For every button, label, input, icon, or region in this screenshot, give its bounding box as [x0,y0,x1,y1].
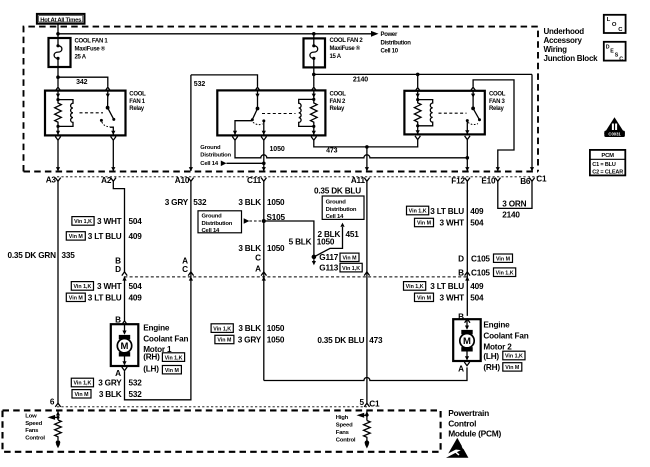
coil in K2 [299,99,314,126]
svg-text:Ground: Ground [202,214,223,220]
svg-text:Junction Block: Junction Block [544,54,599,63]
svg-text:Speed: Speed [336,423,353,429]
pin letters A C at C105 [182,257,194,281]
svg-text:C2 = CLEAR: C2 = CLEAR [592,169,623,175]
label fuse F2 [330,38,364,60]
label Vin M 3 LT BLU 409 row [66,232,142,241]
svg-text:342: 342 [76,79,88,86]
svg-text:Accessory: Accessory [544,36,583,45]
svg-text:473: 473 [369,336,383,345]
pin letters C A at C105 [255,254,261,274]
svg-text:A11: A11 [351,176,366,185]
svg-text:PCM: PCM [601,153,614,159]
label Vin 1,K 3 BLK 1050 row [211,324,285,333]
svg-text:D: D [606,44,610,50]
svg-text:Vin M: Vin M [417,221,432,227]
svg-text:Control: Control [448,418,476,428]
svg-text:Vin 1,K: Vin 1,K [74,219,92,225]
label Vin 1,K 3 GRY 532 row [71,378,142,387]
svg-text:Vin M: Vin M [74,392,89,398]
svg-text:5 BLK: 5 BLK [289,238,312,247]
label 3 BLK 1050 lower [238,244,285,253]
svg-text:High: High [336,415,349,421]
label fuse F1 [75,39,109,61]
svg-text:6: 6 [50,398,55,407]
fuse F2 COOL FAN 2 MaxiFuse 15 A [304,34,326,75]
svg-text:3 BLK: 3 BLK [238,324,261,333]
Underhood Accessory Wiring Junction Block dashed border [24,27,540,177]
svg-text:1050: 1050 [317,238,335,247]
label 0.35 DK GRN 335 [7,251,75,260]
wire hot feed vertical into fuse 1 [57,24,59,46]
wire E10 to B6 loop [498,181,532,208]
wire F12 to motor2 B [465,181,470,322]
svg-text:532: 532 [194,81,206,88]
svg-text:G113: G113 [319,264,338,273]
svg-text:A3: A3 [46,175,57,184]
svg-text:Control: Control [25,436,45,442]
svg-text:D: D [458,254,464,263]
svg-text:Distribution: Distribution [200,152,231,158]
svg-text:D: D [115,265,121,274]
svg-text:FAN 1: FAN 1 [129,99,145,105]
svg-text:A10: A10 [175,176,190,185]
wire power distribution feed horizontal [58,33,372,35]
svg-text:S: S [615,53,619,59]
svg-text:C1 = BLU: C1 = BLU [592,162,616,168]
svg-text:C: C [619,57,623,63]
svg-text:Vin 1,K: Vin 1,K [406,284,424,290]
svg-text:Ground: Ground [200,145,221,151]
svg-text:Vin M: Vin M [505,365,520,371]
resistor in K2 [311,99,318,126]
svg-text:1050: 1050 [267,335,285,344]
svg-text:Vin 1,K: Vin 1,K [73,381,91,387]
relay K3 COOL FAN 3 box [404,91,484,135]
svg-text:3 BLK: 3 BLK [99,390,122,399]
svg-text:335: 335 [62,251,76,260]
wire relay2 switch to F12 with hops [235,140,469,171]
svg-text:473: 473 [326,148,338,155]
svg-text:A: A [255,265,261,274]
svg-text:FAN 3: FAN 3 [489,99,505,105]
svg-text:532: 532 [193,198,207,207]
label Vin M 3 GRY 1050 row [215,335,285,344]
wire arrow ground distribution to S105 [244,218,262,224]
svg-text:3 WHT: 3 WHT [97,282,122,291]
svg-text:1050: 1050 [267,198,285,207]
svg-text:C: C [255,254,261,263]
svg-text:C: C [182,265,188,274]
svg-text:3 LT BLU: 3 LT BLU [88,293,122,302]
svg-text:Vin 1,K: Vin 1,K [409,209,427,215]
svg-text:2 BLK: 2 BLK [318,230,341,239]
svg-text:Vin 1,K: Vin 1,K [213,326,231,332]
svg-text:Distribution: Distribution [202,221,233,227]
svg-text:Vin 1,K: Vin 1,K [505,354,523,360]
label COOL FAN 2 Relay [330,92,347,113]
svg-text:Fans: Fans [25,428,39,434]
relay K1 coil-switch dashed link [80,112,104,114]
svg-text:532: 532 [129,379,143,388]
relay K2 COOL FAN 2 box [217,90,325,135]
label Powertrain Control Module (PCM) [448,408,501,439]
svg-text:Relay: Relay [129,106,144,112]
svg-text:Relay: Relay [330,106,345,112]
svg-text:C105: C105 [471,268,490,277]
svg-text:Vin M: Vin M [165,368,180,374]
svg-text:1050: 1050 [270,146,285,153]
svg-text:Coolant Fan: Coolant Fan [143,334,188,343]
svg-text:451: 451 [346,230,360,239]
label Ground Distribution Cell 14 upper [200,145,231,167]
fuse F1 COOL FAN 1 MaxiFuse 25 A [49,38,71,77]
svg-text:B: B [458,268,464,277]
label 3 GRY 532 at A10 [165,198,207,207]
motor M2 Engine Coolant Fan Motor 2 [453,319,481,366]
svg-text:25 A: 25 A [75,55,87,61]
DESC box [604,42,626,63]
wire C11 down to ground rail [261,181,266,380]
svg-text:C1: C1 [369,400,380,409]
svg-text:504: 504 [470,219,484,228]
label Vin M 3 LT BLU 409 row below C105 [66,293,142,302]
Ground Distribution Cell 14 box right [322,196,364,220]
svg-text:409: 409 [129,232,143,241]
label Power Distribution Cell 10 [381,32,412,54]
svg-text:(LH): (LH) [483,352,499,361]
relay K2 switch branch [232,92,266,141]
svg-text:Power: Power [381,32,398,38]
svg-text:3 BLK: 3 BLK [238,198,261,207]
svg-text:3 LT BLU: 3 LT BLU [430,282,464,291]
label Engine Coolant Fan Motor 1 [143,323,188,374]
wire net E10 loop to relay3 switch [470,80,514,171]
svg-text:Distribution: Distribution [326,207,357,213]
svg-text:3 GRY: 3 GRY [98,379,122,388]
label Vin 1,K 3 WHT 504 row [72,217,142,227]
svg-text:COOL: COOL [489,92,506,98]
label Vin M 3 WHT 504 row F12 [415,218,485,227]
svg-text:Engine: Engine [483,321,510,330]
wire G117 branch 2 BLK 451 up arrow [314,223,345,257]
svg-text:409: 409 [129,293,143,302]
coil in K3 [418,100,433,126]
svg-text:504: 504 [129,217,143,226]
svg-text:Module (PCM): Module (PCM) [448,429,501,439]
in-line connector C105 dashed line [124,276,467,278]
relay K3 switch branch [465,92,481,140]
svg-text:Powertrain: Powertrain [448,408,489,418]
svg-text:(LH): (LH) [143,365,159,374]
svg-text:Cell 14: Cell 14 [202,228,221,234]
svg-text:Control: Control [336,437,356,443]
relay K3 coil branch [414,92,432,140]
svg-text:3 LT BLU: 3 LT BLU [88,232,122,241]
svg-text:Vin 1,K: Vin 1,K [165,355,183,361]
label 0.35 DK BLU 473 [317,336,383,345]
svg-text:Coolant Fan: Coolant Fan [483,332,528,341]
svg-text:0.35 DK GRN: 0.35 DK GRN [7,251,56,260]
svg-text:0.35 DK BLU: 0.35 DK BLU [314,187,361,196]
svg-text:Cell 14: Cell 14 [326,214,345,220]
svg-text:A2: A2 [101,176,112,185]
svg-text:COOL FAN 1: COOL FAN 1 [75,39,109,45]
svg-text:Low: Low [25,413,37,419]
node Hot At All Times label [37,14,85,24]
svg-text:3 WHT: 3 WHT [97,217,122,226]
svg-text:3 GRY: 3 GRY [165,198,189,207]
wire relay2 ground exit to C11 [262,140,266,171]
svg-text:2140: 2140 [502,211,520,220]
wire ground rail to motor2 A with hop over A11 [264,367,467,380]
svg-text:Cell 14: Cell 14 [200,161,219,167]
svg-text:1050: 1050 [267,324,285,333]
wire S105 to G117 [264,221,314,255]
label Low Speed Fans Control [25,413,45,441]
wire motor1 A loop to A10 [125,181,191,399]
svg-text:5: 5 [359,398,364,407]
label Vin 1,K 3 LT BLU 409 row F12 [407,206,485,216]
label Engine Coolant Fan Motor 2 [483,321,528,372]
svg-text:Vin 1,K: Vin 1,K [496,270,514,276]
svg-text:M: M [121,341,129,352]
svg-text:15 A: 15 A [330,54,342,60]
node junction dot hot feed [56,32,60,36]
label Vin 1,K 3 LT BLU 409 row motor2 [404,282,485,291]
svg-text:E10: E10 [481,176,496,185]
svg-text:Motor 2: Motor 2 [483,343,512,352]
pin D C105 Vin M [458,254,512,263]
label Vin M 3 BLK 532 row [72,390,142,399]
warning triangle code symbol [604,117,625,137]
pin B C105 Vin 1,K [458,268,516,277]
svg-text:504: 504 [129,282,143,291]
svg-text:3 ORN: 3 ORN [502,200,526,209]
motor M1 Engine Coolant Fan Motor 1 [111,324,139,371]
svg-text:2140: 2140 [353,76,368,83]
svg-text:532: 532 [129,390,143,399]
wire net 342 fuse1 to relay1 [55,75,110,91]
label Vin M 3 WHT 504 row motor2 [415,293,485,302]
label 3 BLK 1050 upper [238,198,285,207]
label COOL FAN 3 Relay [489,92,506,113]
svg-text:E: E [610,48,614,54]
svg-text:C105: C105 [471,254,490,263]
LOC box [604,15,626,33]
svg-text:3 GRY: 3 GRY [238,335,262,344]
wire net 532 A10 to relay2 switch [189,75,260,171]
relay K2 coil-switch dashed link [262,113,296,115]
svg-text:Vin M: Vin M [69,234,84,240]
svg-text:Cell 10: Cell 10 [381,49,399,55]
coil in K1 [58,100,73,127]
PCM high speed fans control driver [357,411,371,448]
svg-text:0.35 DK BLU: 0.35 DK BLU [317,336,364,345]
wire ground distribution arrow to C11 wire [221,161,264,167]
label 3 ORN 2140 [502,200,526,220]
svg-text:3 BLK: 3 BLK [238,244,261,253]
label Vin 1,K 3 WHT 504 row below C105 [71,282,142,291]
pin 5 and C1 [359,398,380,409]
svg-text:Speed: Speed [25,421,42,427]
relay K1 coil branch [55,92,73,172]
svg-text:C0031: C0031 [608,132,621,137]
svg-text:Relay: Relay [489,106,504,112]
relay K2 coil branch [299,92,317,141]
ESD symbol triangle bottom [444,438,471,458]
svg-text:3 LT BLU: 3 LT BLU [430,207,464,216]
svg-text:3 WHT: 3 WHT [440,219,465,228]
pin letters B D at C105 [115,257,121,274]
svg-text:COOL: COOL [330,92,347,98]
svg-text:(RH): (RH) [143,353,160,362]
svg-text:F12: F12 [451,176,465,185]
wire A2 jog to motor1 B [113,181,127,324]
svg-text:A: A [458,365,464,374]
relay K1 switch branch [100,92,116,172]
svg-text:Vin M: Vin M [417,296,432,302]
relay K3 coil-switch dashed link [439,112,467,114]
svg-text:L: L [607,17,611,23]
svg-text:Ground: Ground [326,200,347,206]
svg-text:G117: G117 [319,253,338,262]
wire net 473 relay2 coil to relay3 coil and A11 [314,140,418,171]
wire A11 to PCM pin 5 [364,181,369,407]
svg-text:A: A [115,369,121,378]
svg-text:Engine: Engine [143,323,170,332]
svg-text:FAN 2: FAN 2 [330,99,346,105]
svg-text:COOL: COOL [129,92,146,98]
svg-text:C11: C11 [247,176,262,185]
svg-text:1050: 1050 [267,244,285,253]
svg-text:M: M [463,336,471,347]
wire arrow to Power Distribution Cell 10 [371,31,379,37]
PCM connector legend box [590,150,625,176]
label High Speed Fans Control [336,415,356,443]
svg-text:Vin M: Vin M [342,256,357,262]
label COOL FAN 1 Relay [129,92,146,113]
svg-text:504: 504 [470,293,484,302]
svg-text:Vin 1,K: Vin 1,K [342,266,360,272]
connector chevrons below block [55,178,534,182]
svg-text:3 WHT: 3 WHT [440,293,465,302]
resistor in K3 [414,100,421,126]
PCM dashed border [3,407,441,452]
label 5 BLK 1050 [289,238,335,247]
wire A3 to PCM pin 6 [55,181,60,407]
svg-text:Wiring: Wiring [544,45,568,54]
svg-text:MaxiFuse ®: MaxiFuse ® [75,46,106,53]
svg-text:Vin M: Vin M [69,296,84,302]
svg-text:MaxiFuse ®: MaxiFuse ® [330,45,361,52]
PCM low speed fans control driver [47,411,61,448]
svg-text:Fans: Fans [336,430,350,436]
Ground Distribution Cell 14 box left [198,211,242,234]
svg-text:Hot At All Times: Hot At All Times [40,17,82,23]
svg-text:O: O [612,22,617,28]
svg-text:Distribution: Distribution [381,40,412,46]
wire net 2140 fuse2 to relay2 coil, relay3 coil, B6 [311,73,534,172]
svg-text:COOL FAN 2: COOL FAN 2 [330,38,364,44]
svg-text:409: 409 [470,282,484,291]
resistor in K1 [55,100,62,127]
node junction dot fuse2 tap [312,32,316,36]
relay K1 COOL FAN 1 box [45,91,126,136]
label Underhood Accessory Wiring Junction Block [544,27,599,63]
svg-text:Underhood: Underhood [544,27,585,36]
splice S105 [262,213,286,223]
label 2 BLK 451 [318,230,360,239]
svg-text:Vin M: Vin M [496,256,511,262]
svg-text:Vin 1,K: Vin 1,K [73,284,91,290]
svg-text:C1: C1 [536,175,547,184]
svg-text:Vin M: Vin M [217,338,232,344]
svg-text:(RH): (RH) [483,363,500,372]
ground G117 G113 [312,253,363,273]
svg-text:409: 409 [470,207,484,216]
